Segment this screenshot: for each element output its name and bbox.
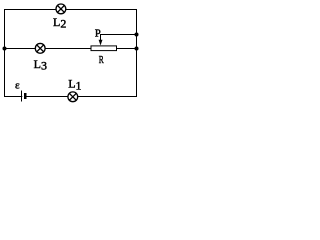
svg-text:L1: L1 [68, 77, 81, 93]
lamp L2 [56, 4, 66, 14]
node junction right bottom [135, 47, 139, 51]
svg-text:P: P [95, 29, 101, 40]
node junction right top [135, 33, 139, 37]
wire slider tap [101, 35, 137, 41]
wire middle branch [5, 48, 137, 50]
resistor R box [91, 46, 117, 51]
battery short thick plate [24, 93, 26, 99]
svg-text:ε: ε [15, 80, 20, 92]
battery long plate [21, 91, 23, 102]
battery gap [22, 94, 24, 100]
node junction left [3, 47, 7, 51]
svg-text:L3: L3 [34, 57, 47, 73]
svg-text:R: R [99, 54, 104, 66]
svg-text:L2: L2 [53, 15, 66, 31]
lamp L3 [35, 43, 45, 53]
wire outer loop [5, 10, 137, 97]
lamp L1 [68, 92, 78, 102]
slider wiper arrow P [99, 40, 103, 46]
